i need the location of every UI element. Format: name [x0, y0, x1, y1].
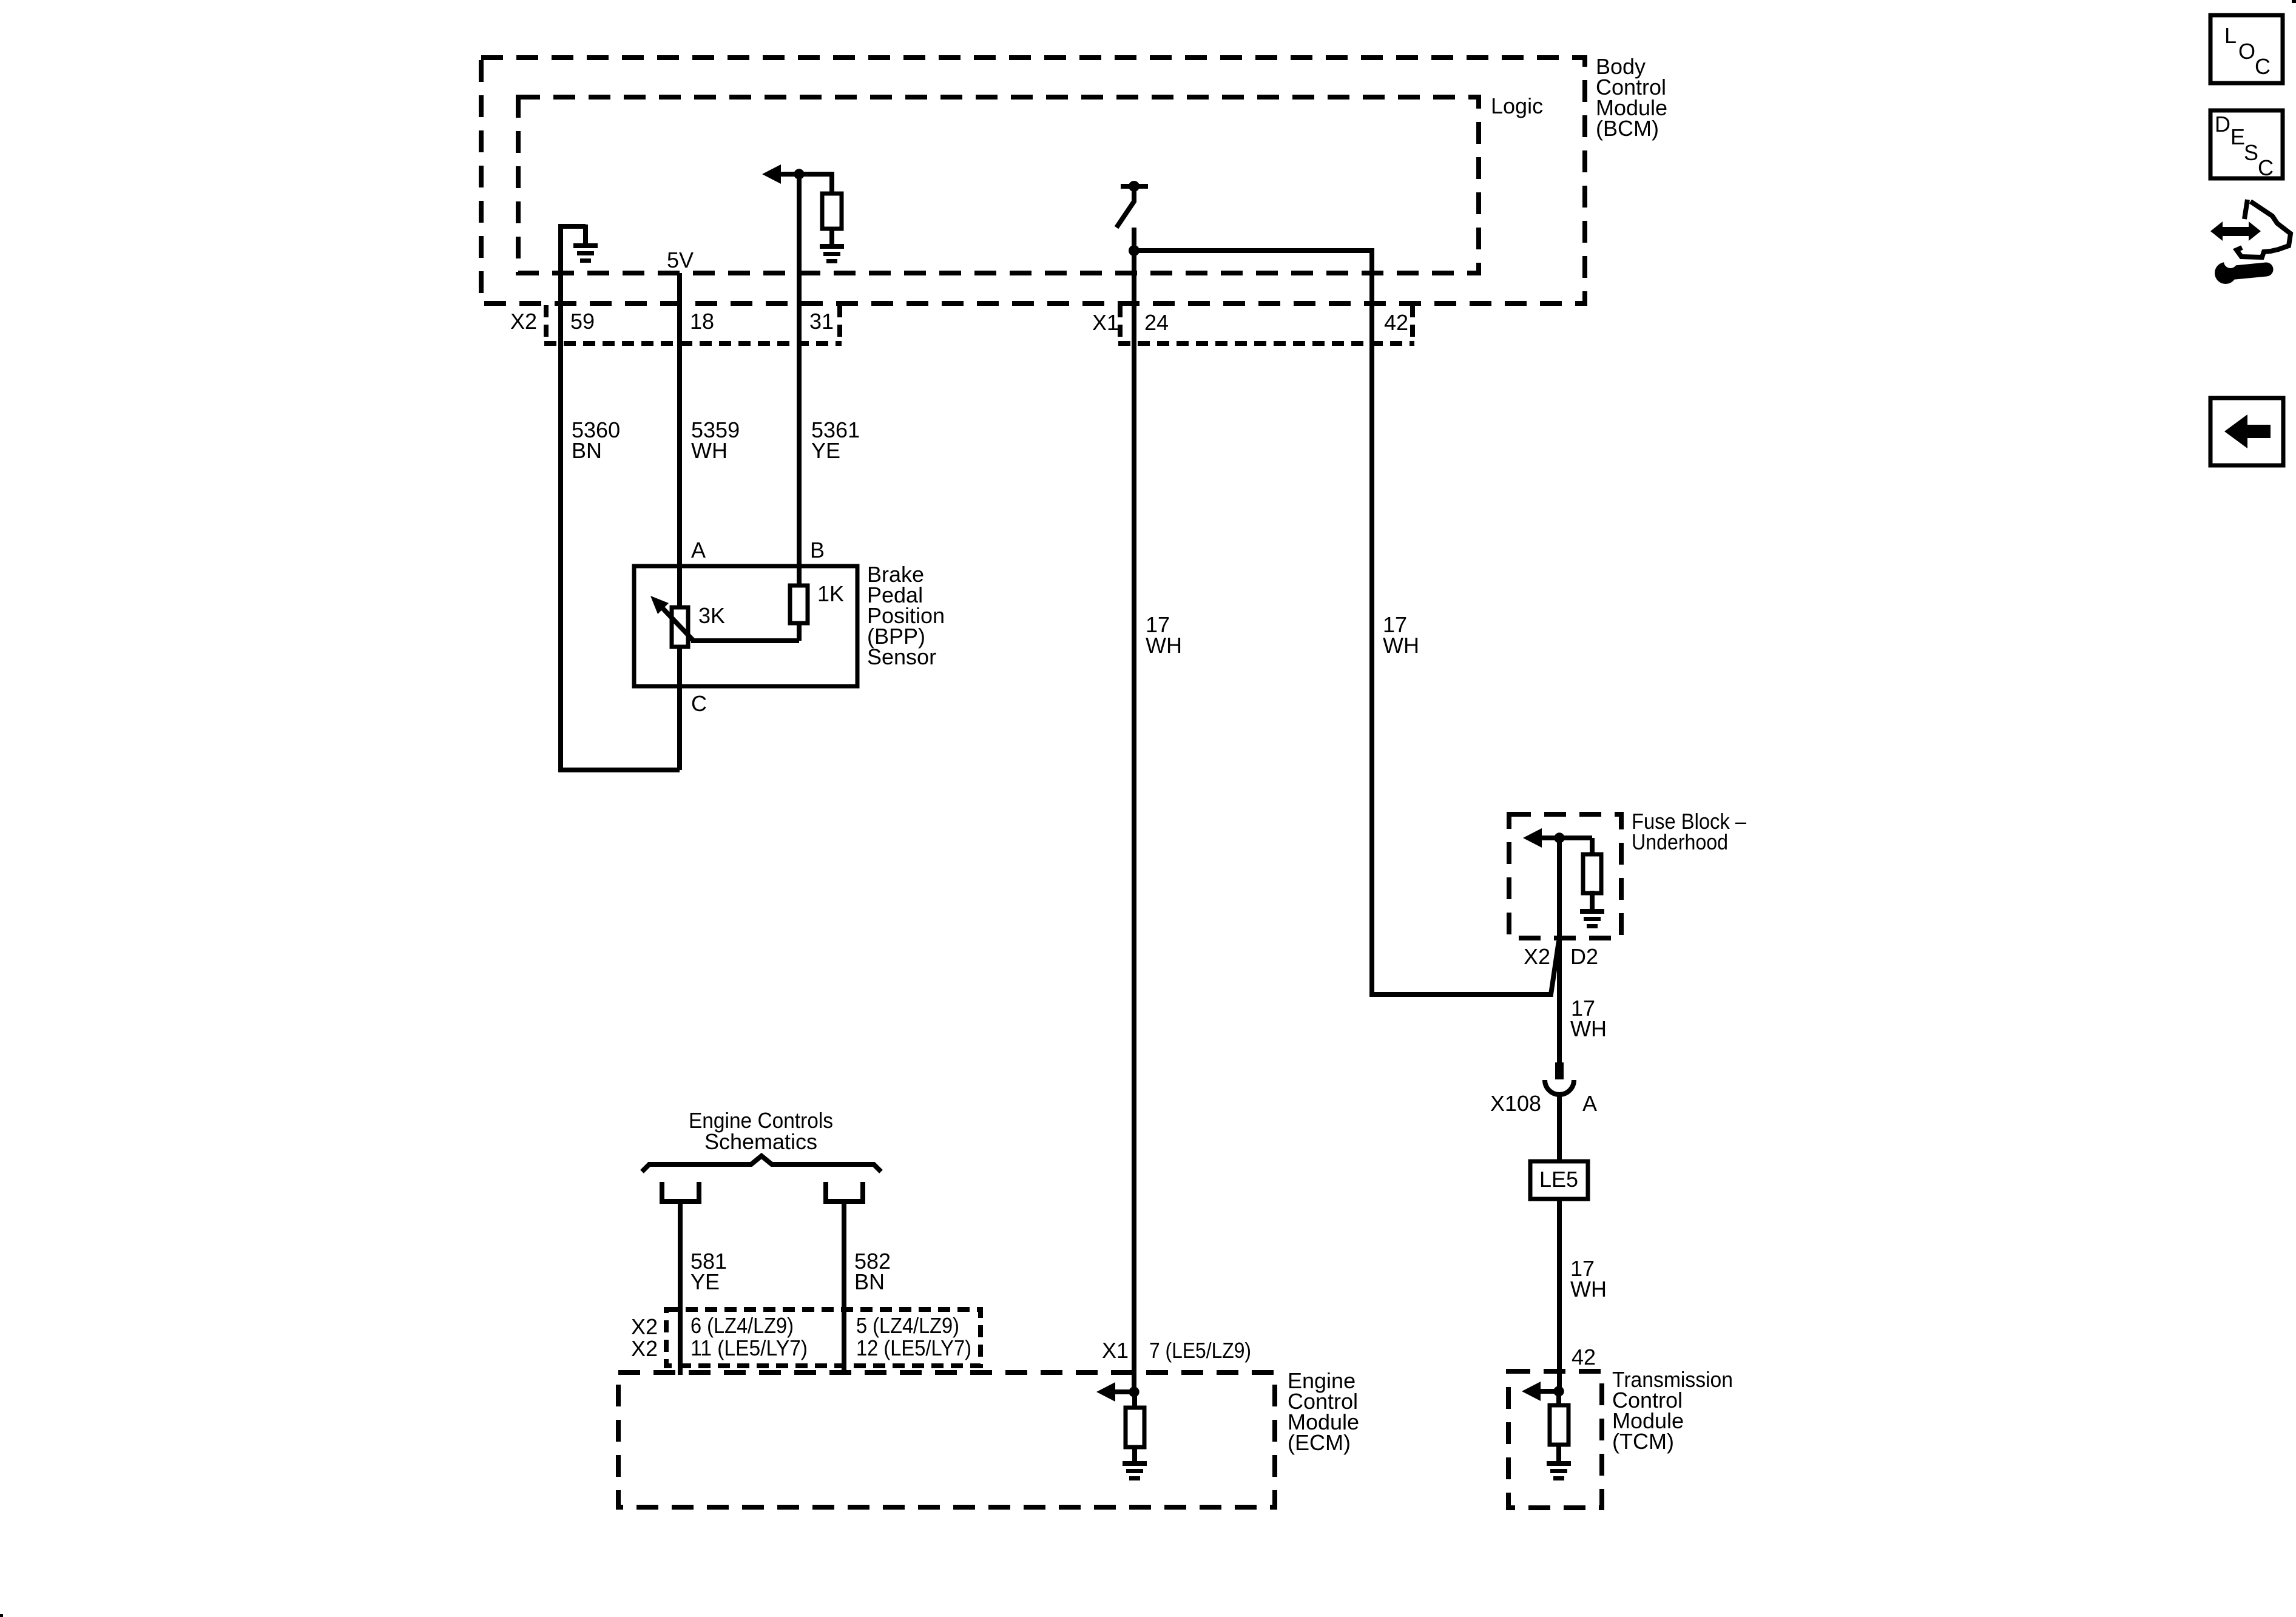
wire: TCM node to resistor: [1556, 1391, 1561, 1406]
svg-text:3K: 3K: [698, 603, 725, 628]
wire: node to internal resistor: [1557, 836, 1592, 840]
icon: connector end view / repair (arrows and wrench): [2218, 227, 2252, 236]
wire: ECM node to resistor: [1132, 1392, 1137, 1409]
svg-text:Schematics: Schematics: [704, 1129, 817, 1154]
svg-text:YE: YE: [690, 1269, 720, 1294]
switch: brake signal (BCM internal), top contact: [1129, 181, 1140, 192]
potentiometer wiper arrow: [658, 604, 694, 641]
svg-text:B: B: [810, 538, 825, 562]
svg-text:(ECM): (ECM): [1288, 1430, 1351, 1455]
svg-text:C: C: [2258, 155, 2274, 180]
svg-text:42: 42: [1572, 1345, 1596, 1369]
svg-text:E: E: [2230, 124, 2245, 149]
svg-text:Sensor: Sensor: [867, 644, 936, 669]
wire 581 YE: schematic stub to ECM: [678, 1203, 683, 1375]
ground: TCM internal: [1547, 1461, 1571, 1466]
svg-text:C: C: [691, 691, 707, 716]
page mark top-right: [2292, 0, 2296, 3]
arrow: to other circuit (fuse block): [1523, 828, 1542, 848]
brace: engine controls schematics: [642, 1156, 881, 1172]
svg-text:X2: X2: [631, 1336, 658, 1361]
svg-text:1K: 1K: [817, 581, 844, 606]
ground: BCM internal (pin 59): [573, 243, 598, 248]
connector X108 female socket: [1545, 1080, 1574, 1095]
module box: Fuse Block - Underhood: [1509, 814, 1621, 938]
wire: fuse block internal vertical: [1557, 838, 1562, 1062]
icon box: DESC: [2210, 110, 2283, 178]
svg-text:24: 24: [1144, 310, 1169, 335]
svg-text:18: 18: [690, 309, 714, 334]
svg-text:X2: X2: [1524, 944, 1550, 969]
arrow: to other circuit (ECM): [1096, 1382, 1115, 1402]
svg-text:D2: D2: [1570, 944, 1598, 969]
module box: Engine Control Module (ECM): [618, 1372, 1275, 1507]
svg-text:X2: X2: [510, 309, 537, 334]
svg-text:WH: WH: [1570, 1277, 1607, 1301]
svg-text:31: 31: [809, 309, 834, 334]
svg-text:42: 42: [1384, 310, 1408, 335]
wire: resistor to ground stub (fuse block): [1590, 891, 1595, 910]
svg-text:Logic: Logic: [1491, 93, 1543, 118]
svg-text:S: S: [2244, 140, 2258, 165]
wire: ECM resistor to ground stub: [1132, 1446, 1137, 1461]
wire 582 BN: schematic stub to ECM: [842, 1203, 846, 1375]
svg-text:Underhood: Underhood: [1632, 829, 1728, 854]
ground: ECM internal: [1123, 1461, 1147, 1466]
ground: BCM internal (pin 31 pull-up): [820, 244, 844, 249]
junction: switch output node: [1129, 245, 1140, 256]
svg-text:X1: X1: [1102, 1338, 1129, 1363]
wire: 1K resistor bottom to wiper: [797, 621, 802, 641]
svg-text:O: O: [2238, 39, 2255, 64]
svg-text:A: A: [691, 538, 706, 562]
svg-text:WH: WH: [1146, 633, 1182, 658]
connector X108 male pin: [1555, 1062, 1564, 1079]
connector X1 (BCM) fine-dash box: [1118, 305, 1123, 340]
svg-text:BN: BN: [854, 1269, 885, 1294]
node A junction on pin 31 net: [794, 169, 804, 179]
svg-text:12 (LE5/LY7): 12 (LE5/LY7): [856, 1335, 971, 1360]
junction: TCM input node: [1553, 1386, 1564, 1396]
module box: Body Control Module (BCM): [481, 58, 1585, 303]
junction: ECM input node: [1129, 1386, 1139, 1397]
resistor 1K (inside BPP sensor): [790, 586, 808, 623]
resistor: BCM internal pull-up: [822, 194, 842, 229]
wire 5360 BN: BCM X2-59 down and to BPP sensor pin C: [561, 228, 680, 770]
arrow: to other circuit (BCM logic): [762, 164, 781, 184]
icon box: LOC: [2210, 15, 2283, 83]
wire 17 WH: BCM X1-24 down to ECM: [1132, 251, 1136, 1392]
arrow: to other circuit (TCM): [1522, 1382, 1541, 1401]
connector X2 (BCM) fine-dash box: [544, 305, 549, 340]
svg-text:BN: BN: [572, 438, 602, 463]
svg-text:(TCM): (TCM): [1612, 1429, 1674, 1454]
svg-text:L: L: [2224, 23, 2237, 48]
svg-text:X108: X108: [1490, 1091, 1541, 1116]
svg-text:X1: X1: [1092, 310, 1119, 335]
ground: fuse block internal: [1580, 909, 1604, 914]
svg-text:D: D: [2215, 112, 2230, 137]
resistor: ECM internal: [1126, 1408, 1144, 1447]
svg-text:WH: WH: [1383, 633, 1419, 658]
option box LE5: [1530, 1161, 1588, 1199]
wire 17 WH: BCM X1-42 down, over to fuse block connector: [1134, 251, 1559, 994]
potentiometer 3K body: [672, 607, 688, 647]
wire: resistor to ground stub: [829, 228, 834, 245]
svg-text:5V: 5V: [667, 248, 694, 272]
svg-text:X2: X2: [631, 1314, 658, 1339]
wire: junction to pull-up resistor: [797, 172, 832, 177]
resistor: TCM internal: [1550, 1405, 1568, 1445]
svg-text:11 (LE5/LY7): 11 (LE5/LY7): [690, 1335, 808, 1360]
resistor: fuse block internal: [1583, 854, 1601, 893]
svg-text:C: C: [2255, 54, 2271, 79]
wire: X108 to LE5 splice: [1557, 1092, 1562, 1161]
page mark bottom-left: [0, 1614, 3, 1617]
wire: BCM pin 59 internal jog to ground: [558, 224, 586, 229]
wire: TCM resistor to ground stub: [1556, 1443, 1561, 1461]
svg-text:(BCM): (BCM): [1596, 116, 1659, 141]
svg-text:6 (LZ4/LZ9): 6 (LZ4/LZ9): [690, 1313, 794, 1338]
connector box (ECM X2 pins): [666, 1309, 981, 1366]
svg-text:YE: YE: [811, 438, 840, 463]
svg-text:WH: WH: [691, 438, 728, 463]
wire 5359 WH: 5V reference to BPP sensor pin A / wiper C: [677, 273, 682, 770]
svg-text:WH: WH: [1570, 1016, 1607, 1041]
wire: switch lower contact: [1132, 228, 1136, 251]
icon box: back arrow: [2210, 398, 2283, 465]
module box: Transmission Control Module (TCM): [1508, 1371, 1602, 1508]
svg-text:7 (LE5/LZ9): 7 (LE5/LZ9): [1149, 1338, 1251, 1363]
svg-text:59: 59: [570, 309, 595, 334]
component box: Brake Pedal Position (BPP) Sensor: [634, 566, 857, 686]
off-page stub (wire 582): [823, 1182, 828, 1200]
off-page stub (wire 581): [660, 1182, 664, 1200]
logic box inside BCM: [518, 97, 1479, 273]
wire 5361 YE: BCM X2-31 to BPP sensor pin B: [797, 174, 802, 586]
junction: fuse block node: [1554, 832, 1564, 843]
switch blade: [1116, 189, 1134, 228]
svg-text:5 (LZ4/LZ9): 5 (LZ4/LZ9): [856, 1313, 959, 1338]
wire: LE5 to TCM pin 42: [1557, 1199, 1562, 1392]
svg-text:LE5: LE5: [1539, 1167, 1578, 1192]
svg-text:A: A: [1582, 1091, 1597, 1116]
